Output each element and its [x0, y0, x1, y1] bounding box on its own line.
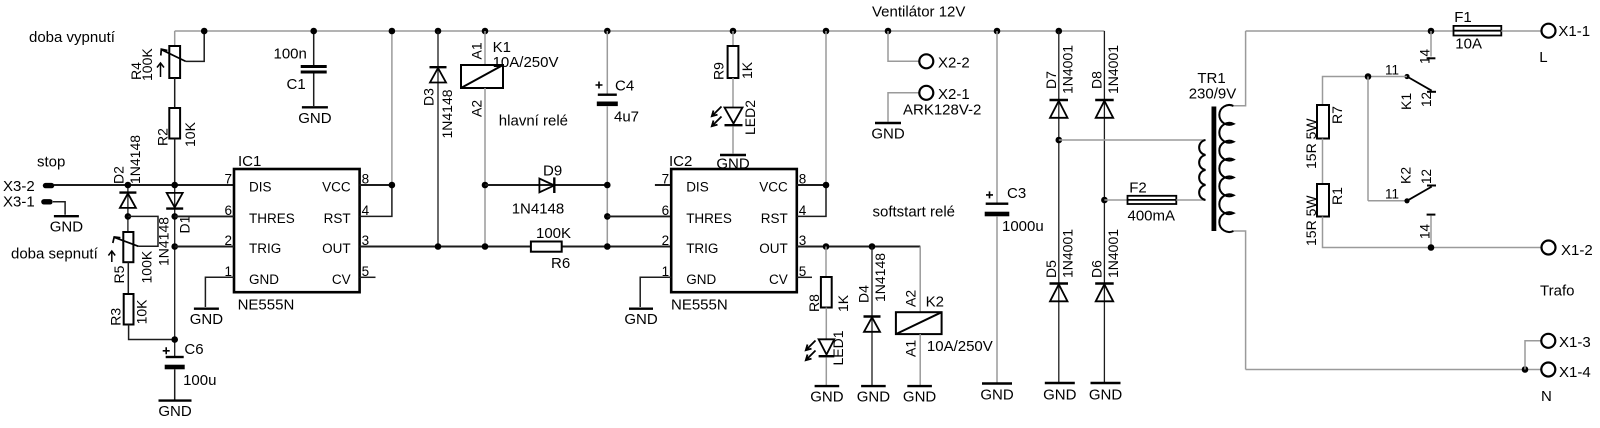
ground D6: [1089, 383, 1123, 404]
wire C3 bottom: [996, 216, 998, 382]
wire IC2 pin3 OUT: [797, 246, 920, 248]
junction IC2 pin8/pin4: [823, 182, 830, 189]
junction X3-2/D2: [125, 182, 132, 189]
junction D2 anode: [125, 213, 132, 220]
svg-text:C3: C3: [1007, 185, 1026, 202]
relay coil K2: [896, 312, 942, 334]
capacitor C3 1000u: [985, 191, 1010, 216]
svg-text:TR1: TR1: [1197, 70, 1225, 87]
wire IC1 pin6 THRES: [175, 215, 234, 217]
svg-text:X3-2: X3-2: [3, 178, 35, 195]
wire IC2 pin1 to ground: [640, 277, 671, 307]
svg-text:R6: R6: [551, 255, 570, 272]
svg-text:D8: D8: [1089, 71, 1105, 89]
junction C4/THRES: [604, 213, 611, 220]
wire contacts trunk: [1367, 77, 1369, 201]
svg-text:X3-1: X3-1: [3, 194, 35, 211]
svg-text:R3: R3: [107, 308, 123, 326]
ground C6: [158, 401, 192, 421]
svg-text:N: N: [1541, 388, 1552, 405]
svg-text:GND: GND: [903, 389, 937, 406]
ground C3: [980, 384, 1014, 404]
svg-text:D1: D1: [177, 215, 193, 233]
svg-text:10K: 10K: [182, 121, 198, 147]
wire C4 bottom: [606, 106, 608, 246]
wire IC2 pin5 CV stub: [797, 276, 812, 278]
svg-text:LED1: LED1: [830, 330, 846, 365]
wire K2 pin14: [1430, 216, 1432, 248]
svg-text:K1: K1: [1398, 93, 1414, 110]
wire X2-2: [888, 31, 920, 61]
svg-text:L: L: [1539, 49, 1547, 66]
diode D1 1N4148: [166, 193, 183, 209]
wire IC2 pin4 RST bend: [797, 185, 826, 216]
svg-text:doba sepnutí: doba sepnutí: [11, 246, 99, 263]
svg-text:RST: RST: [324, 211, 351, 226]
resistor R2: [169, 108, 180, 139]
wire D9 row: [485, 184, 607, 186]
svg-text:7: 7: [224, 172, 232, 187]
junction rail x=733: [730, 28, 737, 35]
wire LED1 to ground: [825, 358, 827, 386]
svg-text:GND: GND: [810, 389, 844, 406]
junction C4/DIS: [604, 182, 611, 189]
junction IC1 pin8/pin4: [389, 182, 396, 189]
svg-text:LED2: LED2: [742, 100, 758, 135]
svg-text:A1: A1: [469, 42, 485, 59]
terminal X1-1: [1542, 24, 1556, 38]
svg-text:VCC: VCC: [322, 180, 351, 195]
svg-text:THRES: THRES: [686, 211, 732, 226]
svg-text:GND: GND: [158, 403, 192, 420]
svg-text:A2: A2: [903, 290, 919, 307]
junction OUT/R8: [823, 243, 830, 250]
transformer TR1 primary winding: [1219, 105, 1233, 232]
wire IC2 pin6 THRES: [607, 215, 671, 217]
fuse F2 400mA: [1128, 196, 1177, 204]
svg-text:R1: R1: [1329, 187, 1345, 205]
svg-text:100n: 100n: [274, 46, 307, 63]
wire D1/C6 vertical: [174, 185, 176, 356]
svg-text:IC2: IC2: [669, 153, 692, 170]
R4 wiper arrow: [161, 49, 186, 61]
svg-text:1N4148: 1N4148: [439, 89, 455, 138]
svg-text:GND: GND: [249, 272, 279, 287]
svg-text:GND: GND: [686, 272, 716, 287]
svg-text:DIS: DIS: [686, 180, 709, 195]
wire D4 vertical: [871, 247, 873, 386]
svg-text:CV: CV: [769, 272, 788, 287]
ground X2-1: [871, 123, 905, 143]
svg-text:hlavní relé: hlavní relé: [499, 113, 568, 130]
diode D3 1N4148: [430, 67, 447, 82]
diode D6 1N4001: [1095, 284, 1114, 302]
svg-text:X1-2: X1-2: [1561, 242, 1593, 259]
junction R2/D1: [171, 182, 178, 189]
svg-text:GND: GND: [980, 387, 1014, 404]
wire R8 top: [825, 247, 827, 278]
wire K2 coil top: [919, 247, 921, 313]
svg-text:R9: R9: [710, 62, 726, 80]
svg-text:100K: 100K: [139, 250, 155, 283]
svg-text:D3: D3: [421, 88, 437, 106]
wire 12V rail to R4 top: [174, 31, 176, 46]
transformer TR1 core: [1212, 107, 1217, 232]
resistor R9: [728, 46, 739, 78]
wire IC1 pin3 OUT row: [360, 246, 921, 248]
wire K1 coil top: [484, 31, 486, 65]
wire R9 to LED2: [732, 78, 734, 108]
wire K1 pin14: [1430, 31, 1432, 57]
wire X3-2 to IC1 pin7: [54, 184, 234, 186]
svg-text:15R 5W: 15R 5W: [1303, 195, 1319, 246]
wire X3-1 to ground: [53, 202, 65, 215]
svg-text:6: 6: [662, 203, 670, 218]
junction K1/D9: [482, 182, 489, 189]
wire D7/D5 vertical: [1058, 31, 1060, 382]
svg-text:1N4148: 1N4148: [127, 135, 143, 184]
wire D2 vertical: [127, 185, 129, 232]
svg-text:14: 14: [1418, 48, 1433, 64]
svg-text:1N4148: 1N4148: [512, 201, 565, 218]
junction rail x=888: [885, 28, 892, 35]
wire IC1 pin8 VCC: [360, 184, 392, 186]
svg-text:1K: 1K: [835, 294, 851, 312]
terminal X3-1: [41, 199, 53, 204]
relay contact K2: [1404, 186, 1436, 215]
svg-text:CV: CV: [332, 272, 351, 287]
junction contacts trunk: [1365, 73, 1372, 80]
diode D9 1N4148: [539, 177, 554, 193]
svg-text:400mA: 400mA: [1128, 208, 1176, 225]
svg-text:K2: K2: [926, 294, 944, 311]
svg-text:X1-4: X1-4: [1559, 364, 1591, 381]
wire X1-3 link: [1525, 341, 1541, 370]
svg-text:DIS: DIS: [249, 180, 272, 195]
resistor R4 (pot body): [169, 46, 180, 78]
fuse F1 10A: [1454, 26, 1502, 36]
svg-text:GND: GND: [857, 389, 891, 406]
wire C6 to ground: [174, 369, 176, 399]
svg-text:Trafo: Trafo: [1540, 283, 1574, 300]
junction rail x=391.9: [389, 28, 396, 35]
svg-text:10A/250V: 10A/250V: [493, 54, 559, 71]
capacitor C4 4u7: [596, 82, 618, 107]
svg-text:X1-3: X1-3: [1559, 334, 1591, 351]
junction OUT/D4: [869, 243, 876, 250]
wire C4 top: [606, 31, 608, 94]
ground IC1 pin1: [190, 309, 224, 329]
R5 wiper arrow: [113, 237, 139, 246]
svg-text:11: 11: [1385, 63, 1399, 78]
svg-text:GND: GND: [624, 311, 658, 328]
svg-text:10A: 10A: [1455, 35, 1482, 52]
svg-text:1N4001: 1N4001: [1105, 229, 1121, 278]
wire IC1 pin2 TRIG: [175, 246, 234, 248]
wire R8 to LED1: [825, 308, 827, 340]
svg-text:D5: D5: [1043, 260, 1059, 278]
wire R5 to R3: [127, 262, 129, 294]
ground D4: [857, 386, 891, 405]
relay coil K1: [461, 65, 503, 88]
diode D5 1N4001: [1050, 284, 1069, 302]
svg-text:TRIG: TRIG: [249, 241, 281, 256]
junction K1/OUT: [482, 243, 489, 250]
junction rail x=438: [435, 28, 442, 35]
wire VCC vertical to rail (IC2): [825, 31, 827, 185]
svg-text:NE555N: NE555N: [238, 297, 295, 314]
terminal X2-1: [919, 86, 933, 100]
wire R9 top: [732, 31, 734, 46]
svg-text:IC1: IC1: [238, 153, 261, 170]
svg-text:GND: GND: [50, 219, 84, 236]
junction K2/X1-2: [1428, 244, 1435, 251]
svg-text:10A/250V: 10A/250V: [927, 338, 993, 355]
capacitor C1 100n: [301, 65, 327, 74]
svg-text:C1: C1: [287, 76, 306, 93]
junction D7/secondary: [1056, 137, 1063, 144]
wire IC2 pin7 stub: [655, 184, 671, 186]
transformer TR1 secondary winding: [1199, 140, 1205, 200]
junction D1/THRES: [171, 213, 178, 220]
junction rail x=204.2: [201, 28, 208, 35]
junction rail x=997: [994, 28, 1001, 35]
svg-text:12: 12: [1419, 92, 1434, 107]
svg-text:GND: GND: [190, 311, 224, 328]
ground IC2 pin1: [624, 309, 658, 329]
capacitor C6 100u: [163, 347, 185, 369]
wire R5 wiper loop: [128, 216, 158, 246]
svg-text:RST: RST: [761, 211, 788, 226]
svg-text:1N4001: 1N4001: [1105, 45, 1121, 94]
svg-text:A2: A2: [469, 100, 485, 117]
op-amp/timer IC2 NE555N box: [671, 169, 797, 292]
R5 adjust arrow glyph: [108, 251, 115, 262]
svg-text:VCC: VCC: [759, 180, 788, 195]
resistor R6: [531, 242, 562, 252]
svg-text:1N4001: 1N4001: [1060, 229, 1076, 278]
LED LED2: [712, 107, 743, 127]
wire IC2 pin8 VCC: [797, 184, 826, 186]
svg-text:100K: 100K: [139, 48, 155, 81]
svg-text:THRES: THRES: [249, 211, 295, 226]
svg-text:12: 12: [1419, 169, 1434, 184]
wire K1 coil bottom: [484, 88, 486, 247]
svg-text:Ventilátor 12V: Ventilátor 12V: [872, 4, 965, 21]
resistor R7: [1317, 105, 1329, 139]
diode D8 1N4001: [1095, 100, 1114, 118]
svg-text:OUT: OUT: [322, 241, 351, 256]
svg-text:R2: R2: [154, 128, 170, 146]
svg-text:11: 11: [1385, 187, 1399, 202]
ground LED1: [810, 386, 844, 405]
wire R2 to node: [174, 139, 176, 186]
terminal X1-2: [1542, 241, 1556, 255]
terminal X1-4: [1541, 363, 1555, 377]
svg-text:C6: C6: [184, 341, 203, 358]
svg-text:stop: stop: [37, 154, 65, 171]
wire R1 bottom: [1323, 217, 1542, 248]
junction C6 node: [171, 336, 178, 343]
junction K1 common: [1428, 28, 1435, 35]
wire R3 to C6 node: [129, 325, 175, 340]
ground D5: [1043, 383, 1077, 404]
R4 adjust arrow glyph: [157, 63, 164, 77]
wire C1 top: [313, 31, 315, 65]
svg-text:1N4148: 1N4148: [872, 253, 888, 302]
wire F2 left: [1104, 199, 1127, 201]
svg-text:GND: GND: [298, 110, 332, 127]
svg-text:GND: GND: [1089, 387, 1123, 404]
ground C1: [298, 107, 332, 127]
wire LED2 to ground: [732, 127, 734, 154]
net mains L top: [1246, 30, 1454, 32]
junction C4/TRIG: [604, 243, 611, 250]
wire C1 bottom: [313, 74, 315, 107]
wire IC1 pin4 RST bend: [360, 185, 392, 216]
resistor R8: [821, 277, 832, 308]
svg-text:GND: GND: [1043, 387, 1077, 404]
svg-text:R5: R5: [111, 265, 127, 283]
svg-text:D4: D4: [856, 285, 872, 303]
ground K2: [903, 386, 937, 405]
svg-text:ARK128V-2: ARK128V-2: [903, 102, 981, 119]
resistor R3: [124, 294, 134, 325]
wire K2 coil to ground: [919, 334, 921, 385]
diode D4 1N4148: [864, 317, 881, 332]
junction rail x=485: [482, 28, 489, 35]
wire R4 wiper to rail: [186, 31, 205, 61]
svg-text:NE555N: NE555N: [671, 297, 728, 314]
terminal X1-3: [1541, 334, 1555, 348]
svg-text:1K: 1K: [739, 61, 755, 79]
svg-text:2: 2: [662, 233, 670, 248]
wire primary bottom lead: [1234, 231, 1246, 370]
wire VCC vertical to rail (IC1): [391, 31, 393, 185]
terminal X2-2: [919, 54, 933, 68]
net N bottom: [1246, 369, 1541, 371]
svg-text:10K: 10K: [133, 299, 149, 325]
svg-text:D7: D7: [1043, 71, 1059, 89]
svg-text:softstart relé: softstart relé: [873, 204, 956, 221]
wire primary top lead: [1234, 31, 1246, 106]
wire R7 to R1: [1322, 139, 1324, 185]
LED LED1: [806, 339, 835, 360]
junction rail x=826: [823, 28, 830, 35]
wire D3 vertical: [437, 31, 439, 247]
terminal X3-2: [43, 183, 55, 188]
wire X2-1 to ground: [888, 93, 920, 122]
svg-text:F2: F2: [1129, 180, 1147, 197]
junction rail x=607.3: [604, 28, 611, 35]
svg-text:R8: R8: [806, 294, 822, 312]
svg-text:1N4001: 1N4001: [1060, 45, 1076, 94]
svg-text:GND: GND: [716, 156, 750, 173]
ground LED2: [716, 155, 750, 173]
svg-text:7: 7: [662, 172, 670, 187]
svg-text:R7: R7: [1329, 106, 1345, 124]
svg-text:100u: 100u: [183, 372, 216, 389]
svg-text:230/9V: 230/9V: [1189, 86, 1237, 103]
svg-text:C4: C4: [615, 78, 634, 95]
resistor R1: [1317, 184, 1329, 217]
wire IC1 pin5 CV stub: [360, 276, 376, 278]
svg-text:doba vypnutí: doba vypnutí: [29, 29, 116, 46]
junction D3/OUT: [435, 243, 442, 250]
svg-text:D6: D6: [1089, 260, 1105, 278]
svg-text:A1: A1: [903, 340, 919, 357]
svg-text:X2-2: X2-2: [938, 55, 970, 72]
wire K2 pin11: [1368, 200, 1407, 202]
svg-text:GND: GND: [871, 126, 905, 143]
svg-text:100K: 100K: [536, 225, 571, 242]
svg-text:1000u: 1000u: [1002, 218, 1044, 235]
op-amp/timer IC1 NE555N box: [234, 169, 360, 292]
wire R7 top link: [1323, 77, 1408, 106]
wire D8/D6 vertical: [1103, 31, 1105, 382]
resistor R5 (pot body): [123, 232, 133, 262]
svg-text:4u7: 4u7: [614, 109, 639, 126]
wire IC1 pin1 to ground: [205, 277, 234, 307]
wire R4 to R2: [174, 78, 176, 108]
diode D2 1N4148: [119, 193, 136, 208]
junction rail x=313.7: [310, 28, 317, 35]
svg-text:K2: K2: [1398, 167, 1414, 184]
svg-text:D9: D9: [543, 163, 562, 180]
wire C3 top: [996, 31, 998, 203]
svg-text:F1: F1: [1454, 9, 1472, 26]
wire F1 to X1-1: [1501, 30, 1541, 32]
svg-text:OUT: OUT: [759, 241, 788, 256]
junction D8/F2: [1101, 197, 1108, 204]
diode D7 1N4001: [1050, 100, 1069, 118]
net 12V rail: [175, 30, 1105, 32]
svg-text:D2: D2: [110, 166, 126, 184]
wire secondary top: [1059, 139, 1206, 141]
svg-text:X1-1: X1-1: [1558, 23, 1590, 40]
junction X1-3/X1-4: [1522, 366, 1529, 373]
ground X3-1: [50, 216, 84, 236]
junction TRIG node: [171, 243, 178, 250]
junction rail x=1058.8: [1056, 28, 1063, 35]
wire F2 right to secondary: [1176, 199, 1205, 201]
svg-text:15R 5W: 15R 5W: [1303, 118, 1319, 169]
svg-text:X2-1: X2-1: [938, 86, 970, 103]
svg-text:TRIG: TRIG: [686, 241, 718, 256]
relay contact K1: [1404, 58, 1436, 92]
